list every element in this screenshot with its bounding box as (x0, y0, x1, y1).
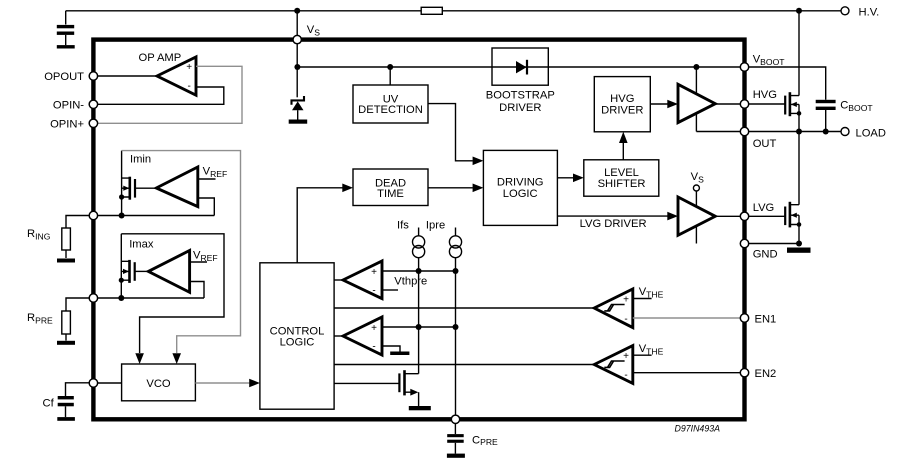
wire control logic to switch MOSFET gate (334, 382, 399, 384)
pin EN2 (740, 369, 748, 377)
wire GND line (747, 243, 799, 245)
svg-text:DRIVER: DRIVER (601, 105, 643, 117)
wire Vs pin drop to internal rail and zener (296, 11, 298, 98)
zener diode (Vs clamp) (292, 96, 305, 105)
svg-text:SHIFTER: SHIFTER (598, 178, 646, 190)
wire Imax loop to VCO (121, 234, 224, 353)
pin RING (89, 211, 97, 219)
transistor high-side MOSFET (784, 96, 786, 115)
wire H.V. top supply line (66, 10, 841, 12)
comparator Imax (148, 251, 189, 293)
wire Imax sense branch (left edge) (120, 234, 122, 298)
svg-text:+: + (186, 62, 192, 73)
svg-text:OPOUT: OPOUT (44, 71, 84, 83)
svg-text:Vthpre: Vthpre (394, 276, 427, 288)
wire Imax feedback to RPRE node (190, 282, 204, 299)
pin LVG (740, 212, 748, 220)
svg-text:+: + (623, 351, 629, 362)
wire Imin feedback to RING node (198, 198, 215, 216)
wire VCO output to control logic (195, 382, 249, 384)
svg-text:LOGIC: LOGIC (503, 188, 538, 200)
wire comparator pre - input to ground (382, 346, 400, 352)
wire LVG buffer to LVG pin (715, 215, 742, 217)
svg-text:OP AMP: OP AMP (139, 52, 182, 64)
wire driving logic to level shifter (557, 177, 573, 179)
junction rail at Vs drop (294, 64, 300, 70)
junction CBOOT at OUT line (823, 129, 829, 135)
wire Imin loop to VCO (gray) (122, 151, 241, 353)
schmitt trigger EN1 (594, 289, 633, 328)
pin VBOOT (740, 63, 748, 71)
svg-text:HVG: HVG (753, 89, 777, 101)
wire UV detection to driving logic (428, 104, 473, 161)
wire UV detection supply tap (389, 67, 391, 85)
wire Imin VREF input (198, 178, 216, 180)
wire control logic to EN1 schmitt (334, 307, 594, 309)
comparator Imin (156, 167, 198, 207)
op-amp output buffer HVG (678, 84, 715, 122)
block HVG DRIVER (594, 77, 650, 132)
junction on H.V. line above half-bridge (796, 8, 802, 14)
svg-text:LVG: LVG (753, 202, 775, 214)
transistor Imin sense MOSFET (134, 179, 136, 198)
capacitor CBOOT (816, 100, 836, 103)
svg-text:Imax: Imax (129, 239, 154, 251)
svg-text:Imin: Imin (130, 153, 151, 165)
wire control logic to EN2 schmitt (334, 364, 594, 366)
block UV DETECTION (353, 85, 428, 123)
wire Ifs to switch MOSFET drain (418, 258, 420, 374)
wire Imax VREF input (190, 261, 207, 263)
wire EN2 pin to schmitt (633, 372, 741, 374)
svg-text:Cf: Cf (43, 398, 55, 410)
wire comparator fs - input (Vthpre) (382, 289, 398, 291)
resistor (H.V. line) (421, 7, 442, 14)
diode (bootstrap) (516, 61, 527, 73)
junction GND at MOSFET source (796, 241, 802, 247)
pin OPOUT (89, 72, 97, 80)
block CONTROL LOGIC (260, 263, 334, 409)
wire OPOUT pin to op-amp output (96, 75, 157, 77)
wire internal Vs/VBOOT rail (297, 66, 742, 68)
schmitt trigger EN2 (594, 346, 633, 384)
svg-text:VCO: VCO (146, 378, 171, 390)
block DEAD TIME (353, 169, 428, 206)
ground (CPRE) (447, 454, 465, 458)
svg-text:TIME: TIME (377, 188, 404, 200)
wire HVG pin to high-side MOSFET gate (747, 103, 786, 105)
transistor low-side MOSFET (784, 207, 786, 226)
pin GND (740, 239, 748, 247)
wire Ipre to CPRE pin (455, 258, 457, 416)
IC package boundary (93, 40, 744, 420)
svg-text:-: - (624, 370, 627, 381)
ground (half-bridge low side) (787, 248, 811, 253)
ground (zener) (289, 120, 308, 124)
wire RPRE node (96, 297, 204, 299)
wire op-amp inverting input to OPIN- (96, 87, 224, 104)
svg-text:LOAD: LOAD (856, 128, 886, 140)
ground (switch MOSFET source) (409, 406, 431, 410)
pin OPIN+ (89, 119, 97, 127)
comparator Vthpre (fs) (334, 279, 343, 281)
svg-text:HVG: HVG (610, 93, 634, 105)
svg-text:EN2: EN2 (755, 368, 777, 380)
ground (RING) (57, 259, 75, 263)
comparator (pre) (334, 335, 343, 337)
wire HVG driver to output buffer (650, 103, 667, 105)
wire Cf pin to VCO (96, 382, 122, 384)
svg-text:DETECTION: DETECTION (358, 104, 423, 116)
capacitor (supply bypass, top-left) (65, 11, 67, 25)
wire driving logic LVG drive line (557, 215, 667, 217)
block VCO (122, 364, 196, 401)
wire control logic to dead time (297, 188, 342, 263)
wire HVG buffer to HVG pin (715, 103, 742, 105)
svg-text:LOGIC: LOGIC (280, 337, 315, 349)
svg-text:OPIN+: OPIN+ (50, 118, 84, 130)
svg-text:-: - (372, 341, 375, 352)
svg-text:EN1: EN1 (755, 313, 777, 325)
block BOOTSTRAP DRIVER (492, 48, 548, 85)
pin CPRE (bottom) (451, 415, 459, 423)
svg-text:Ifs: Ifs (397, 220, 409, 232)
wire HVG buffer supply from rail (695, 67, 697, 94)
svg-text:BOOTSTRAP: BOOTSTRAP (486, 90, 555, 102)
junction rail at UV detection (387, 64, 393, 70)
pin OPIN- (89, 100, 97, 108)
svg-text:Ipre: Ipre (426, 220, 445, 232)
pin Cf (89, 379, 97, 387)
wire EN2 VTHE reference (633, 354, 652, 356)
terminal LOAD (841, 128, 849, 136)
block LEVEL SHIFTER (584, 160, 659, 196)
junction high-side source at OUT line (796, 129, 802, 135)
svg-text:-: - (188, 81, 191, 92)
svg-text:-: - (624, 314, 627, 325)
wire op-amp non-inverting input to OPIN+ (96, 66, 242, 123)
wire comparator pre + input (382, 326, 458, 328)
pin RPRE (89, 294, 97, 302)
svg-text:DRIVING: DRIVING (497, 177, 544, 189)
svg-text:+: + (371, 267, 377, 278)
svg-text:D97IN493A: D97IN493A (675, 423, 721, 433)
svg-text:DRIVER: DRIVER (499, 102, 541, 114)
block DRIVING LOGIC (483, 150, 557, 225)
op-amp U1 (157, 57, 196, 95)
svg-text:H.V.: H.V. (859, 7, 880, 19)
svg-text:+: + (623, 294, 629, 305)
wire comparator fs + input to current sources (382, 270, 458, 272)
wire HVG buffer return to OUT (695, 113, 697, 131)
junction rail at HVG buffer supply (693, 64, 699, 70)
terminal H.V. (841, 7, 849, 15)
pin Vs (top) (293, 35, 301, 43)
svg-text:+: + (371, 323, 377, 334)
svg-text:GND: GND (753, 249, 778, 261)
pin OUT (740, 127, 748, 135)
svg-text:LVG DRIVER: LVG DRIVER (580, 218, 647, 230)
wire VBOOT pin to bootstrap capacitor (747, 67, 826, 100)
pin HVG (740, 100, 748, 108)
wire level shifter to HVG driver (622, 143, 624, 160)
wire LVG buffer return to GND (695, 226, 697, 244)
wire RING node (96, 215, 215, 217)
svg-text:OUT: OUT (753, 138, 777, 150)
ground (Cf) (57, 417, 75, 421)
junction on H.V. line above Vs (294, 8, 300, 14)
wire Imin sense branch (left edge) (121, 151, 123, 216)
wire EN1 VTHE reference (633, 298, 652, 300)
op-amp output buffer LVG (678, 197, 715, 235)
wire EN1 pin to schmitt (633, 317, 741, 319)
ground (RPRE) (57, 341, 75, 345)
transistor pre-charge switch MOSFET (398, 373, 400, 392)
ground (bypass cap) (57, 45, 75, 48)
wire dead time to driving logic (428, 187, 473, 189)
ground (comparator pre reference) (390, 352, 409, 356)
wire OUT line to LOAD (696, 131, 841, 133)
svg-text:OPIN-: OPIN- (53, 99, 84, 111)
transistor Imax sense MOSFET (134, 262, 136, 281)
wire LVG pin to low-side MOSFET gate (747, 215, 786, 217)
pin EN1 (740, 314, 748, 322)
svg-text:-: - (372, 285, 375, 296)
svg-text:CPRE: CPRE (472, 434, 498, 447)
